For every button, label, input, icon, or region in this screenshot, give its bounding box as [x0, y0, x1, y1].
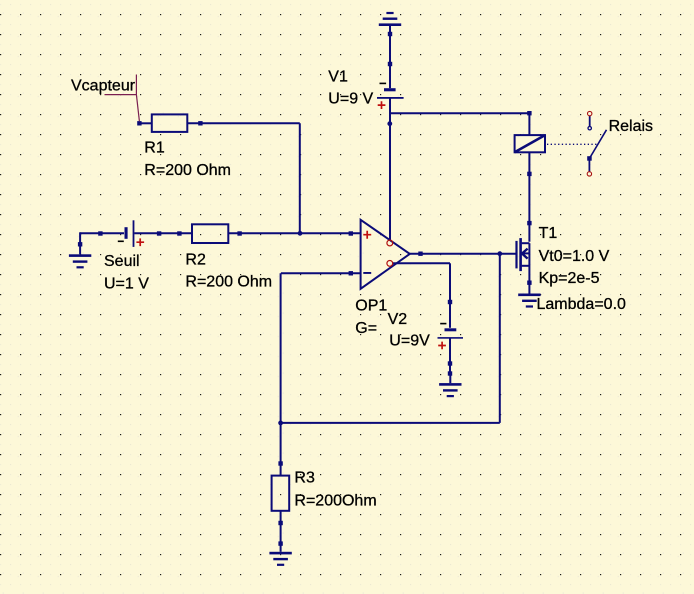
svg-text:R1: R1: [144, 140, 165, 157]
svg-text:R=200 Ohm: R=200 Ohm: [144, 162, 231, 179]
svg-text:Lambda=0.0: Lambda=0.0: [537, 296, 627, 313]
svg-text:Relais: Relais: [609, 118, 653, 135]
svg-text:G=: G=: [355, 320, 377, 337]
svg-text:R=200 Ohm: R=200 Ohm: [185, 274, 272, 291]
svg-text:OP1: OP1: [355, 297, 387, 314]
svg-text:T1: T1: [539, 225, 558, 242]
svg-text:Vcapteur: Vcapteur: [71, 78, 136, 95]
svg-text:Seuil: Seuil: [104, 253, 140, 270]
svg-text:Kp=2e-5: Kp=2e-5: [539, 270, 600, 287]
svg-text:U=9 V: U=9 V: [328, 91, 373, 108]
svg-text:V2: V2: [388, 311, 408, 328]
svg-text:R=200Ohm: R=200Ohm: [294, 492, 376, 509]
svg-text:U=1 V: U=1 V: [104, 275, 149, 292]
svg-text:Vt0=1.0 V: Vt0=1.0 V: [539, 248, 610, 265]
svg-text:R3: R3: [294, 469, 315, 486]
svg-text:U=9V: U=9V: [389, 333, 430, 350]
svg-text:V1: V1: [328, 68, 348, 85]
svg-text:R2: R2: [185, 251, 206, 268]
